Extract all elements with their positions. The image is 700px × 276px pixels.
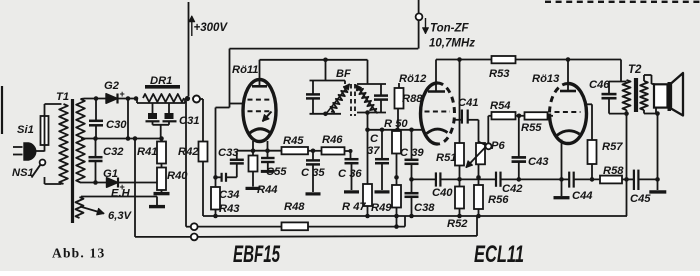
svg-text:R45: R45: [283, 135, 304, 147]
svg-text:+: +: [120, 89, 125, 99]
svg-text:Rö11: Rö11: [232, 64, 259, 76]
svg-text:R54: R54: [490, 100, 511, 112]
svg-text:EBF15: EBF15: [233, 241, 280, 268]
svg-text:C33: C33: [218, 147, 239, 159]
svg-text:R43: R43: [219, 203, 240, 215]
svg-text:R41: R41: [137, 146, 158, 158]
svg-text:C31: C31: [179, 115, 200, 127]
svg-text:R46: R46: [322, 134, 343, 146]
svg-text:C 39: C 39: [400, 147, 424, 159]
svg-text:E.H: E.H: [111, 188, 131, 200]
svg-text:Abb. 13: Abb. 13: [52, 246, 105, 261]
svg-text:C 35: C 35: [301, 167, 325, 179]
svg-text:C44: C44: [572, 190, 593, 202]
svg-text:6,3V: 6,3V: [108, 210, 133, 222]
svg-text:Ton-ZF: Ton-ZF: [430, 23, 470, 35]
svg-text:BF: BF: [336, 68, 351, 80]
svg-text:R44: R44: [257, 184, 278, 196]
svg-text:C: C: [370, 133, 379, 145]
svg-text:ECL11: ECL11: [474, 241, 524, 268]
svg-text:+300V: +300V: [194, 22, 229, 34]
svg-text:Rö13: Rö13: [532, 73, 560, 85]
svg-text:C30: C30: [106, 119, 127, 131]
svg-text:C40: C40: [432, 187, 453, 199]
svg-text:G1: G1: [103, 168, 118, 180]
svg-text:R55: R55: [521, 122, 542, 134]
svg-text:C34: C34: [219, 189, 240, 201]
svg-text:T1: T1: [56, 91, 69, 103]
svg-text:R52: R52: [447, 218, 468, 230]
svg-text:P6: P6: [491, 140, 505, 152]
svg-text:R88: R88: [402, 93, 423, 105]
svg-text:Si1: Si1: [17, 124, 34, 136]
svg-text:Rö12: Rö12: [399, 73, 427, 85]
svg-text:10,7MHz: 10,7MHz: [429, 38, 475, 50]
svg-text:R 47: R 47: [342, 201, 366, 213]
svg-text:R 50: R 50: [384, 118, 408, 130]
svg-text:C45: C45: [630, 193, 651, 205]
svg-text:C38: C38: [414, 202, 435, 214]
svg-text:C55: C55: [266, 166, 287, 178]
svg-text:C32: C32: [103, 146, 124, 158]
svg-text:G2: G2: [104, 80, 120, 92]
svg-text:R51: R51: [436, 152, 457, 164]
svg-text:C42: C42: [502, 183, 523, 195]
svg-text:C43: C43: [528, 156, 549, 168]
svg-text:T2: T2: [628, 64, 642, 76]
svg-text:R48: R48: [284, 201, 305, 213]
svg-text:R49: R49: [371, 202, 392, 214]
svg-text:R57: R57: [602, 141, 623, 153]
svg-text:37: 37: [367, 145, 380, 157]
svg-text:C41: C41: [458, 97, 479, 109]
svg-text:NS1: NS1: [12, 167, 34, 179]
svg-text:C 36: C 36: [338, 168, 362, 180]
svg-text:C46: C46: [589, 79, 610, 91]
svg-text:R42: R42: [178, 146, 199, 158]
svg-text:R56: R56: [488, 194, 509, 206]
svg-text:R53: R53: [489, 68, 510, 80]
